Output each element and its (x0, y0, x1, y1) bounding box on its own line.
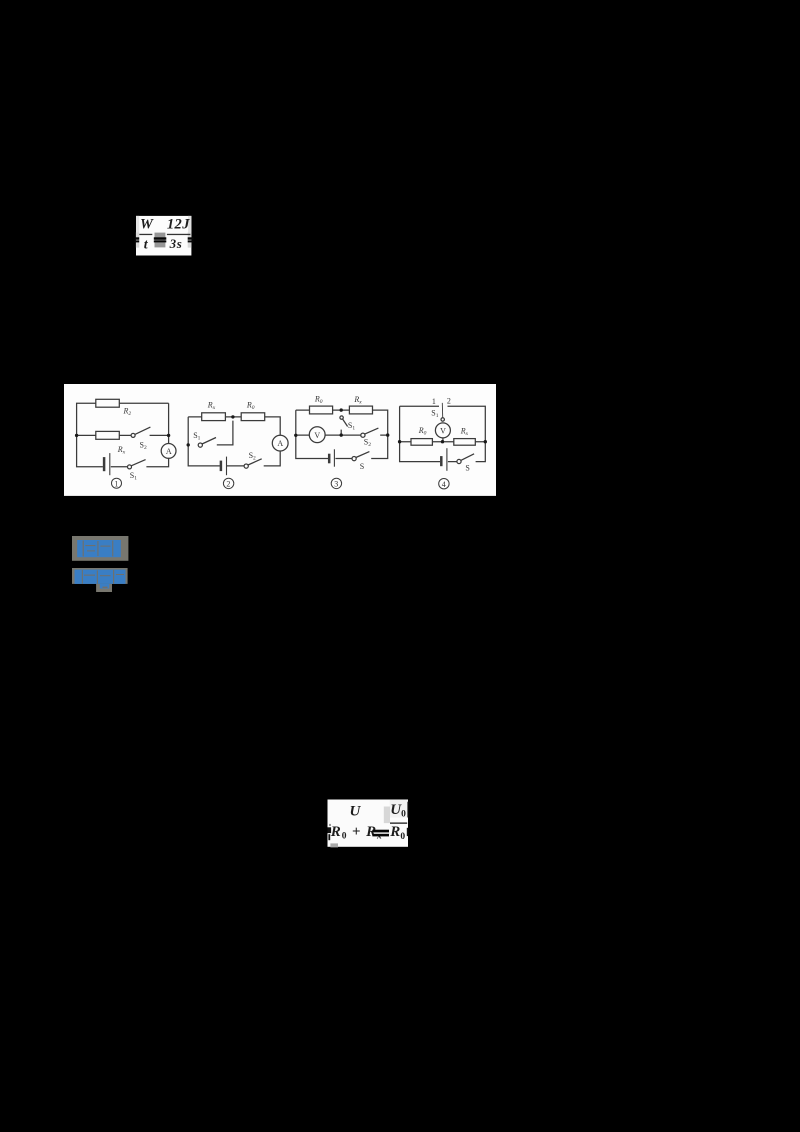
gray equals block (155, 233, 166, 248)
svg-text:V: V (440, 426, 446, 435)
svg-text:A: A (277, 439, 283, 448)
voltmeter V circuit 4 (435, 423, 450, 438)
answer tag block (blue text on gray) (72, 536, 129, 561)
node dot right circuit 4 (484, 440, 487, 443)
svg-text:A: A (166, 447, 172, 456)
resistor Rx circuit 3 (349, 406, 372, 414)
svg-text:3: 3 (334, 479, 338, 488)
right edge partial equals patch (188, 232, 192, 247)
switch S2 circuit 3 (361, 433, 365, 437)
svg-text:U: U (350, 803, 362, 819)
partial glyph right middle (407, 828, 409, 836)
node dot middle circuit 3 (340, 433, 343, 436)
formula image 1: P = W/t = 12J/3s (134, 215, 196, 257)
switch S1 circuit 3 (hanging) (340, 416, 343, 419)
switch S circuit 3 (352, 456, 356, 460)
equals bar 1 (154, 237, 167, 239)
circled 3 label (331, 478, 341, 488)
wire: outer loop circuit 2 (188, 417, 280, 466)
svg-text:R0 + Rx: R0 + Rx (330, 824, 383, 842)
switch S1 circuit 2 (198, 443, 202, 447)
circled 4 label (439, 478, 449, 488)
ammeter A circuit 2 (272, 435, 288, 451)
fraction bar left (139, 234, 152, 235)
wire: outer loop circuit 3 (296, 410, 388, 458)
svg-text:1: 1 (432, 397, 436, 406)
faint gray area top right (390, 800, 408, 818)
battery circuit 3 (328, 453, 331, 463)
node dot top circuit 3 (340, 408, 343, 411)
battery circuit 4 (440, 456, 443, 466)
gray column left of U0 (384, 807, 390, 824)
svg-text:1: 1 (114, 479, 118, 488)
node dot right circuit 3 (386, 433, 389, 436)
partial glyph right top (vertical bar) (407, 802, 408, 818)
battery circuit 1 (103, 457, 106, 471)
node dot left circuit 4 (398, 440, 401, 443)
white equation box (328, 800, 409, 847)
svg-text:S: S (360, 462, 364, 471)
left edge partial equals patch (136, 232, 139, 247)
switch S1 circuit 1 (128, 465, 132, 469)
node dot left circuit 1 (75, 433, 78, 436)
wire: middle branch circuit 4 (400, 440, 486, 442)
wire: middle branch circuit 3 (296, 434, 388, 436)
resistor Rx circuit 4 (454, 438, 476, 445)
gray square bottom left (330, 843, 338, 847)
gray corner strip top-left (136, 216, 139, 232)
wire: S1 fixed contact to top node (217, 420, 233, 444)
ammeter A circuit 1 (161, 443, 176, 458)
node dot middle circuit 4 (441, 440, 444, 443)
resistor R0 circuit 2 (241, 413, 265, 421)
wire: middle branch circuit 1 (77, 434, 169, 436)
fraction bar right (167, 234, 191, 235)
svg-text:12J: 12J (167, 217, 190, 233)
voltmeter V circuit 3 (309, 427, 325, 443)
resistor R2 (top, circuit 1) (96, 399, 120, 407)
contact tick above node circuit 3 (340, 429, 342, 435)
circled 2 label (223, 478, 233, 488)
node dot top circuit 2 (231, 415, 234, 418)
equals bar 2 (154, 240, 167, 242)
svg-text:2: 2 (447, 396, 451, 405)
switch S2 circuit 2 (244, 464, 248, 468)
wire: outer loop circuit 4 (400, 406, 486, 461)
svg-text:4: 4 (442, 480, 446, 489)
gray column right (188, 216, 191, 232)
switch S2 circuit 1 (131, 433, 135, 437)
battery circuit 2 (220, 460, 223, 471)
fraction bar right (390, 822, 407, 824)
small gray dot top left (329, 824, 331, 826)
circuit figure panel (white) (64, 384, 496, 496)
wire: V to middle node circuit 4 (442, 438, 444, 442)
svg-text:3s: 3s (169, 236, 183, 251)
partial glyph left edge (328, 827, 332, 833)
selector lever S1 circuit 4 (441, 403, 443, 418)
wire: outer loop circuit 1 (77, 403, 169, 467)
formula image 2: U/(R0+Rx) = U0/R0 (326, 799, 411, 849)
resistor R0 circuit 4 (411, 438, 432, 445)
bold equals sign (372, 830, 389, 833)
svg-text:S: S (465, 463, 469, 472)
circled 1 label (112, 478, 122, 488)
white equation box (136, 216, 191, 256)
svg-text:W: W (140, 217, 154, 233)
svg-text:2: 2 (226, 479, 230, 488)
node dot right circuit 1 (167, 433, 170, 436)
switch S circuit 4 (457, 459, 461, 463)
node dot left circuit 3 (294, 433, 297, 436)
resistor R0 circuit 3 (310, 406, 333, 414)
analysis tag block (blue text on gray, with descender tab) (72, 568, 128, 592)
svg-text:V: V (314, 431, 320, 440)
resistor Rx circuit 2 (202, 413, 226, 421)
node dot left circuit 2 (187, 443, 190, 446)
resistor Rx (middle, circuit 1) (96, 431, 120, 439)
